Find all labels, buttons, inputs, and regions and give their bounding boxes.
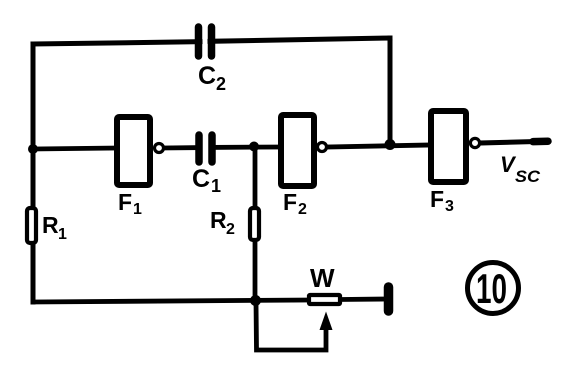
- wire W to chassis terminal: [341, 297, 386, 302]
- svg-text:1: 1: [211, 176, 221, 196]
- svg-text:R: R: [42, 212, 59, 238]
- svg-text:3: 3: [445, 198, 454, 215]
- svg-text:W: W: [310, 263, 335, 293]
- inverter F1: [117, 117, 150, 185]
- wire output terminal stub (thick end): [533, 137, 548, 145]
- node A junction dot: [28, 144, 38, 154]
- wire bottom rail: [33, 300, 309, 302]
- resistor R1: [27, 208, 36, 243]
- label Vsc: [500, 152, 541, 186]
- capacitor C1: [199, 135, 212, 162]
- figure number 10 circle: [468, 263, 519, 314]
- inversion bubble F2: [318, 143, 327, 152]
- wire F3 output lead: [479, 142, 534, 143]
- label R2: [210, 207, 235, 238]
- chassis terminal bar: [384, 287, 394, 311]
- svg-text:R: R: [210, 207, 227, 233]
- svg-text:1: 1: [133, 201, 142, 218]
- svg-text:F: F: [118, 189, 132, 215]
- svg-text:F: F: [283, 189, 297, 215]
- wire F2 output to F3 input through node C: [326, 145, 430, 147]
- inversion bubble F3: [470, 138, 479, 147]
- capacitor C2: [199, 27, 212, 56]
- wire left vertical rail: [31, 44, 36, 302]
- svg-text:2: 2: [298, 201, 307, 218]
- wire F1 output to C1: [162, 145, 200, 150]
- label F2: [283, 189, 307, 218]
- label C1: [192, 165, 221, 196]
- potentiometer W body: [309, 295, 340, 304]
- svg-text:10: 10: [476, 265, 507, 312]
- label F1: [118, 189, 142, 218]
- wire C2 to top-right corner: [210, 38, 390, 41]
- label C2: [198, 62, 226, 94]
- svg-text:SC: SC: [515, 167, 541, 186]
- resistor R2: [250, 208, 259, 240]
- wire C1 to F2 input through node B: [211, 145, 280, 150]
- node B junction dot: [249, 142, 259, 152]
- svg-text:C: C: [198, 62, 216, 90]
- node D junction dot (bottom rail): [250, 295, 261, 306]
- wiper arrow: [320, 312, 333, 331]
- label R1: [42, 212, 67, 243]
- wire wiper return path: [256, 302, 326, 350]
- wire top-right vertical drop to node C: [388, 38, 393, 145]
- label F3: [430, 186, 454, 215]
- wire node A to F1 input: [33, 148, 116, 149]
- inversion bubble F1: [155, 144, 164, 153]
- inverter F2: [281, 115, 314, 186]
- svg-text:F: F: [430, 186, 444, 212]
- node C junction dot: [385, 139, 396, 150]
- wire top-left segment (left node to C2): [33, 42, 200, 44]
- svg-text:C: C: [192, 165, 210, 193]
- svg-text:2: 2: [216, 74, 226, 94]
- svg-text:2: 2: [226, 221, 235, 238]
- svg-text:1: 1: [58, 226, 67, 243]
- wire R2 branch vertical: [253, 147, 258, 300]
- inverter F3: [431, 111, 466, 182]
